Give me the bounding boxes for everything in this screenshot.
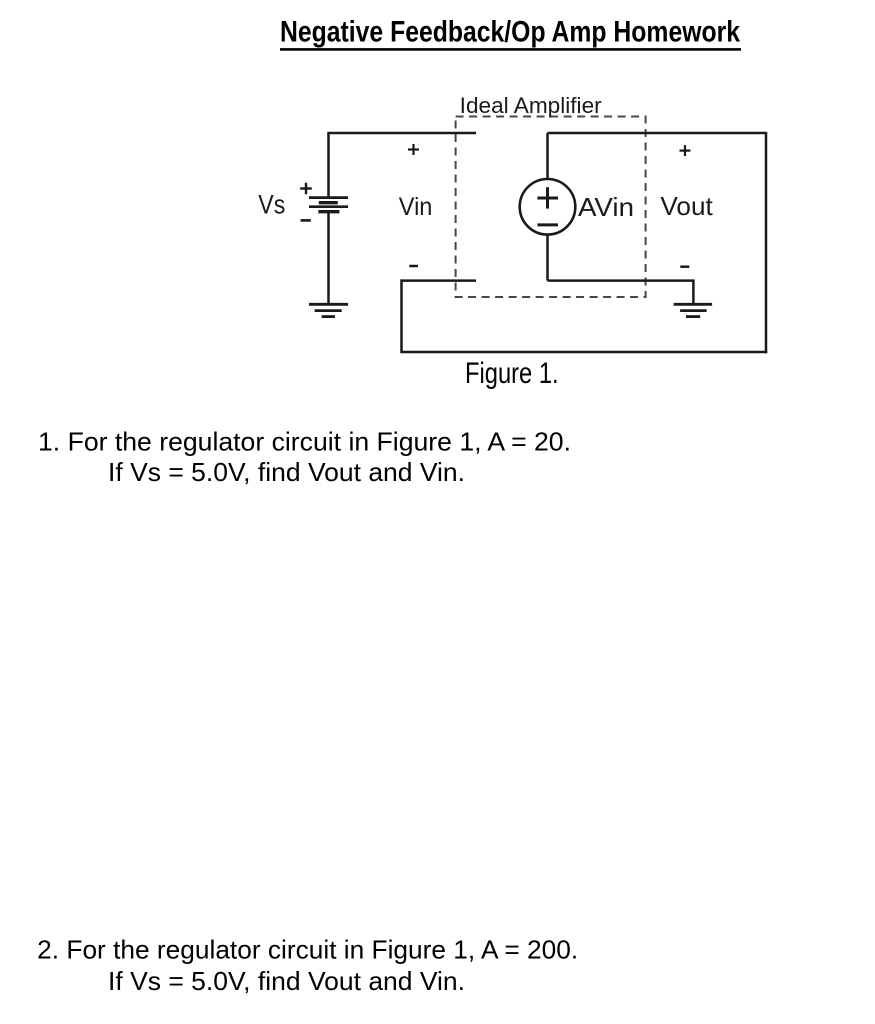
svg-text:2. For the regulator circuit: 2. For the regulator circuit in Figure 1… <box>37 935 578 965</box>
battery Vs <box>309 198 348 212</box>
battery plus sign <box>300 183 312 195</box>
ground GND2 (below output) <box>674 304 712 316</box>
node marker: output - port <box>680 265 689 268</box>
dependent source U1 (controlled voltage source AVin) <box>520 179 576 235</box>
svg-text:Vout: Vout <box>660 191 713 221</box>
source plus sign <box>537 187 558 208</box>
wire: left vertical of bottom loop <box>400 279 403 353</box>
wire: top-left horizontal (Vs+ to amplifier input +) <box>327 132 476 135</box>
svg-text:Negative Feedback/Op Amp Homew: Negative Feedback/Op Amp Homework <box>280 16 740 49</box>
node marker: input - port <box>409 265 418 268</box>
ground GND1 (below battery) <box>309 304 348 316</box>
wire: right ground stub <box>692 279 695 303</box>
svg-text:Vin: Vin <box>399 193 433 221</box>
svg-text:If Vs = 5.0V, find Vout and Vi: If Vs = 5.0V, find Vout and Vin. <box>108 457 465 487</box>
wire: source bottom horizontal to right ground <box>548 279 694 282</box>
wire: dependent source bottom lead <box>546 234 549 281</box>
node marker: output + port <box>680 145 691 156</box>
wire: right vertical (Vout+) <box>765 133 768 353</box>
wire: bottom-left horizontal (feedback into input -) <box>402 279 477 282</box>
amplifier dashed boundary box <box>456 117 646 298</box>
source minus sign <box>537 223 558 226</box>
title: Negative Feedback/Op Amp Homework <box>280 16 741 51</box>
wire: bottom loop horizontal <box>402 351 768 354</box>
svg-text:Figure 1.: Figure 1. <box>465 357 559 390</box>
svg-text:AVin: AVin <box>578 192 634 222</box>
node marker: input + port <box>408 144 419 155</box>
battery minus sign <box>301 219 311 222</box>
wire: top-right horizontal (source top to Vout+) <box>548 132 768 135</box>
svg-text:If Vs = 5.0V, find Vout and Vi: If Vs = 5.0V, find Vout and Vin. <box>108 966 465 996</box>
svg-text:1. For the regulator circuit: 1. For the regulator circuit in Figure 1… <box>38 426 571 456</box>
svg-text:Vs: Vs <box>258 190 285 220</box>
wire: battery bottom vertical to ground <box>327 212 330 304</box>
wire: battery top vertical <box>327 133 330 198</box>
svg-text:Ideal Amplifier: Ideal Amplifier <box>460 93 602 118</box>
wire: dependent source top lead <box>546 133 549 180</box>
